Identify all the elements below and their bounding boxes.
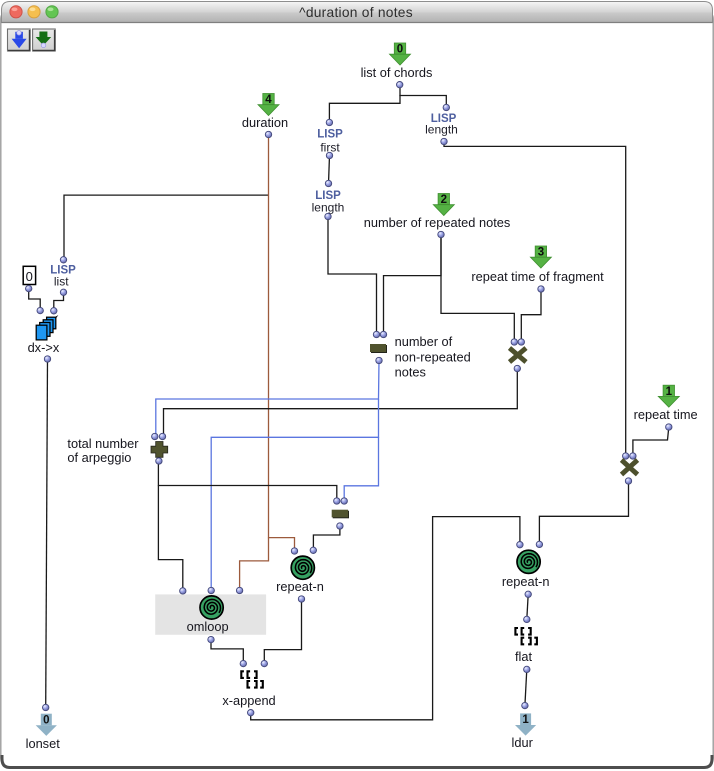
wire dx-x to lonset (46, 359, 48, 708)
wire minus2 to repeat-n 1 inlet2 (313, 526, 340, 550)
dx->x box (28, 307, 60, 362)
wire duration to repeat-n 1 and omloop (brown) (269, 135, 295, 552)
wire repeat-n 2 to flat (527, 594, 528, 619)
flat box (515, 616, 537, 672)
wire number-of-repeated to multiplier X1 (441, 235, 514, 343)
wire repeat-n 1 to x-append inlet2 (264, 599, 301, 664)
toolbar add-input button (8, 29, 31, 51)
plus box total number of arpeggio (67, 433, 167, 465)
multiplier X2 (622, 453, 638, 484)
input arrow 4 duration (242, 94, 288, 138)
svg-text:1: 1 (522, 714, 529, 726)
close button (10, 6, 22, 18)
svg-text:repeat-n: repeat-n (502, 574, 550, 589)
svg-text:0: 0 (26, 269, 33, 284)
svg-text:repeat time: repeat time (634, 407, 698, 422)
LISP length box top (425, 104, 458, 144)
minus box 1 (370, 331, 471, 379)
svg-text:x-append: x-append (222, 693, 275, 708)
input arrow 2 number of repeated notes (364, 194, 511, 238)
input arrow 0 list of chords (361, 43, 433, 88)
wire repeat-time-of-fragment to multiplier X1 (521, 289, 541, 342)
x-append box (222, 660, 275, 716)
svg-text:of arpeggio: of arpeggio (67, 450, 131, 465)
svg-text:number of repeated notes: number of repeated notes (364, 215, 511, 230)
wire multiplier X2 to repeat-n 2 (539, 481, 628, 544)
svg-text:number of: number of (395, 334, 453, 349)
wire list-of-chords to LISP first (329, 95, 400, 123)
zoom button (46, 6, 58, 18)
wire LISP list to dx-x inlet2 (54, 292, 64, 311)
wire LISP length to multiplier X2 (444, 142, 626, 457)
LISP first box (317, 119, 343, 158)
svg-text:^duration of notes: ^duration of notes (299, 5, 413, 20)
svg-text:total number: total number (67, 436, 139, 451)
wire omloop to x-append inlet1 (211, 640, 243, 664)
wire multiplier X1 to plus inlet2 (164, 369, 518, 437)
LISP list box (50, 257, 76, 296)
LISP length box middle (312, 180, 345, 219)
svg-text:LISP: LISP (317, 129, 343, 141)
svg-text:0: 0 (397, 44, 403, 56)
svg-text:flat: flat (515, 649, 533, 664)
wire zero-box to dx-x inlet1 (29, 289, 41, 311)
input arrow 1 repeat time (634, 385, 698, 430)
svg-text:list: list (54, 275, 69, 289)
wire list-of-chords to LISP length (400, 86, 446, 108)
input arrow 3 repeat time of fragment (471, 246, 604, 292)
svg-text:length: length (425, 123, 458, 137)
svg-text:lonset: lonset (26, 736, 61, 751)
wire plus to omloop inlet1 (158, 486, 182, 591)
svg-text:duration: duration (242, 115, 288, 130)
number box 0 (23, 266, 35, 292)
wire repeat-time to multiplier X2 (633, 427, 669, 456)
wire duration to LISP list (64, 195, 269, 260)
svg-text:repeat time of fragment: repeat time of fragment (471, 269, 604, 284)
svg-text:3: 3 (538, 247, 544, 259)
svg-text:omloop: omloop (187, 619, 229, 634)
svg-text:2: 2 (441, 194, 447, 206)
svg-text:non-repeated: non-repeated (395, 350, 471, 365)
wire number-of-repeated to minus inlet2 (384, 235, 442, 335)
wire duration to omloop inlet3 (brown) (240, 538, 269, 591)
wire flat to ldur (525, 669, 527, 705)
wire x-append to repeat-n 2 inlet1 (251, 517, 520, 720)
wire minus1 to plus inlet1 (blue) (156, 361, 379, 437)
window title bar (2, 2, 713, 23)
repeat-n box 2 (502, 541, 550, 597)
svg-text:length: length (312, 201, 345, 215)
toolbar add-output button (33, 29, 56, 51)
svg-text:notes: notes (395, 365, 426, 380)
wire LISP first to LISP length (329, 156, 330, 184)
minimize button (28, 6, 40, 18)
wire minus1 to omloop inlet2 (blue) (211, 399, 378, 591)
repeat-n box 1 (276, 547, 324, 602)
output arrow 0 lonset (26, 704, 61, 751)
svg-text:repeat-n: repeat-n (276, 579, 324, 594)
minus box 2 (332, 498, 349, 529)
svg-text:4: 4 (265, 94, 272, 106)
omloop box (155, 587, 266, 643)
wire plus to minus2 inlet1 (158, 461, 336, 501)
wire minus1 to minus2 inlet2 (blue) (344, 437, 378, 501)
svg-text:dx->x: dx->x (28, 340, 60, 355)
svg-text:0: 0 (43, 715, 49, 727)
svg-text:list of chords: list of chords (361, 65, 433, 80)
output arrow 1 ldur (512, 702, 537, 750)
svg-text:1: 1 (666, 386, 673, 398)
wire LISP length2 to minus inlet1 (328, 217, 377, 335)
multiplier X1 (510, 339, 527, 372)
svg-text:ldur: ldur (512, 735, 534, 750)
